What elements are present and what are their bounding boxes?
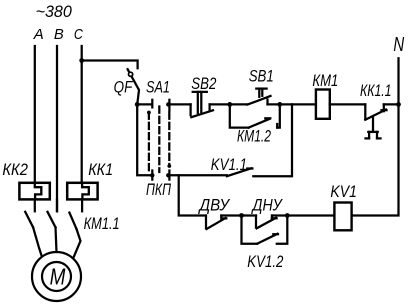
button SB1: [247, 89, 270, 105]
heater KK2: [19, 183, 49, 200]
switch SA1: [137, 100, 171, 180]
wire KM1 to KK1.1: [330, 103, 366, 105]
svg-text:~380: ~380: [36, 2, 73, 21]
wire left bus down: [137, 104, 151, 175]
node KM1.2 right: [277, 102, 282, 107]
svg-text:A: A: [33, 26, 44, 43]
svg-text:ДНУ: ДНУ: [251, 196, 284, 215]
svg-text:B: B: [54, 26, 64, 43]
coil KM1: [316, 90, 330, 119]
svg-text:М: М: [50, 263, 66, 289]
node C tap: [79, 58, 84, 63]
wire C tap to QF: [82, 61, 138, 69]
contact KM1.2: [230, 104, 280, 127]
svg-text:SB2: SB2: [191, 74, 217, 93]
contact KM1.1 pole A: [25, 199, 41, 255]
contact KV1.2: [242, 216, 288, 244]
wire N: [352, 58, 399, 215]
contact KM1.1 pole B: [48, 199, 58, 252]
svg-text:КК1.1: КК1.1: [360, 81, 392, 100]
svg-text:ПКП: ПКП: [146, 180, 171, 199]
wire phase A: [34, 46, 36, 183]
wire phase B: [56, 46, 58, 211]
node N junction: [396, 102, 401, 107]
node DNU right: [285, 213, 290, 218]
svg-text:ДВУ: ДВУ: [198, 196, 231, 215]
wire SB2 to SB1: [210, 103, 248, 105]
wire phase C: [81, 46, 83, 183]
breaker QF: [128, 69, 139, 103]
heater KK1: [67, 183, 97, 200]
contact KM1.1 pole C: [69, 199, 82, 257]
svg-text:КК1: КК1: [88, 160, 113, 179]
motor M1 inner: [42, 262, 71, 291]
svg-text:KV1.2: KV1.2: [247, 252, 284, 271]
svg-text:KV1: KV1: [330, 182, 357, 201]
motor M1 outer: [32, 252, 81, 301]
wire riser to DVU row: [179, 175, 206, 215]
svg-text:QF: QF: [114, 78, 134, 97]
svg-text:КМ1.2: КМ1.2: [237, 127, 271, 146]
node QF bottom: [135, 102, 140, 107]
contact DNU: [242, 216, 288, 229]
contact KK1.1: [365, 104, 398, 138]
contact KV1.1: [169, 104, 292, 176]
svg-text:КМ1.1: КМ1.1: [84, 214, 120, 233]
wire top rail SA1 to SB2: [169, 103, 190, 105]
svg-text:SA1: SA1: [146, 77, 170, 96]
svg-text:КК2: КК2: [2, 160, 28, 179]
wire DNU to KV1: [287, 214, 334, 216]
svg-text:КМ1: КМ1: [312, 71, 338, 90]
contact DVU: [206, 216, 242, 230]
svg-text:SB1: SB1: [249, 67, 274, 86]
svg-text:N: N: [393, 34, 404, 56]
svg-text:C: C: [74, 26, 83, 43]
button SB2: [191, 92, 213, 117]
svg-text:KV1.1: KV1.1: [211, 155, 247, 174]
node KM1.2 left: [227, 102, 232, 107]
wire SB1 to KM1 coil: [268, 103, 316, 105]
coil KV1: [334, 203, 351, 231]
node DVU right: [239, 213, 244, 218]
